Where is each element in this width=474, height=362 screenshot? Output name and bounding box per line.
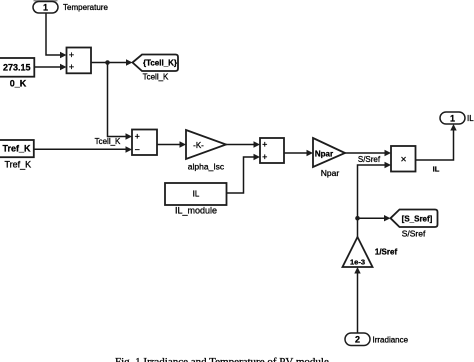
svg-text:Fig. 1 Irradiance and Temperat: Fig. 1 Irradiance and Temperature of PV …: [115, 356, 329, 362]
svg-text:+: +: [135, 132, 140, 142]
svg-text:−: −: [135, 145, 140, 155]
svg-text:Npar: Npar: [315, 150, 333, 159]
svg-text:1/Sref: 1/Sref: [375, 248, 398, 257]
svg-text:+: +: [69, 62, 74, 72]
svg-text:1: 1: [43, 3, 48, 13]
svg-text:IL_module: IL_module: [175, 206, 217, 216]
svg-text:×: ×: [401, 155, 407, 166]
svg-text:-K-: -K-: [193, 141, 204, 150]
svg-text:{Tcell_K}: {Tcell_K}: [143, 59, 177, 68]
svg-text:alpha_Isc: alpha_Isc: [188, 162, 225, 172]
svg-text:0_K: 0_K: [10, 79, 27, 89]
svg-text:Temperature: Temperature: [63, 3, 108, 12]
svg-text:S/Sref: S/Sref: [402, 229, 426, 239]
svg-text:Tref_K: Tref_K: [2, 144, 31, 154]
svg-text:Irradiance: Irradiance: [373, 336, 409, 345]
svg-text:+: +: [262, 140, 267, 150]
svg-text:IL: IL: [433, 165, 440, 174]
svg-text:IL: IL: [193, 190, 200, 199]
svg-text:Tref_K: Tref_K: [4, 160, 31, 170]
svg-text:Npar: Npar: [321, 168, 340, 178]
svg-text:Tcell_K: Tcell_K: [95, 137, 121, 146]
svg-text:IL: IL: [467, 114, 474, 123]
svg-text:+: +: [69, 50, 74, 60]
svg-text:+: +: [262, 152, 267, 162]
svg-text:Tcell_K: Tcell_K: [143, 73, 169, 82]
svg-text:S/Sref: S/Sref: [358, 155, 381, 164]
svg-text:1: 1: [450, 114, 455, 124]
svg-text:1e-3: 1e-3: [350, 258, 365, 267]
svg-text:2: 2: [355, 335, 360, 345]
svg-text:[S_Sref]: [S_Sref]: [402, 215, 433, 224]
svg-text:273.15: 273.15: [3, 63, 31, 73]
